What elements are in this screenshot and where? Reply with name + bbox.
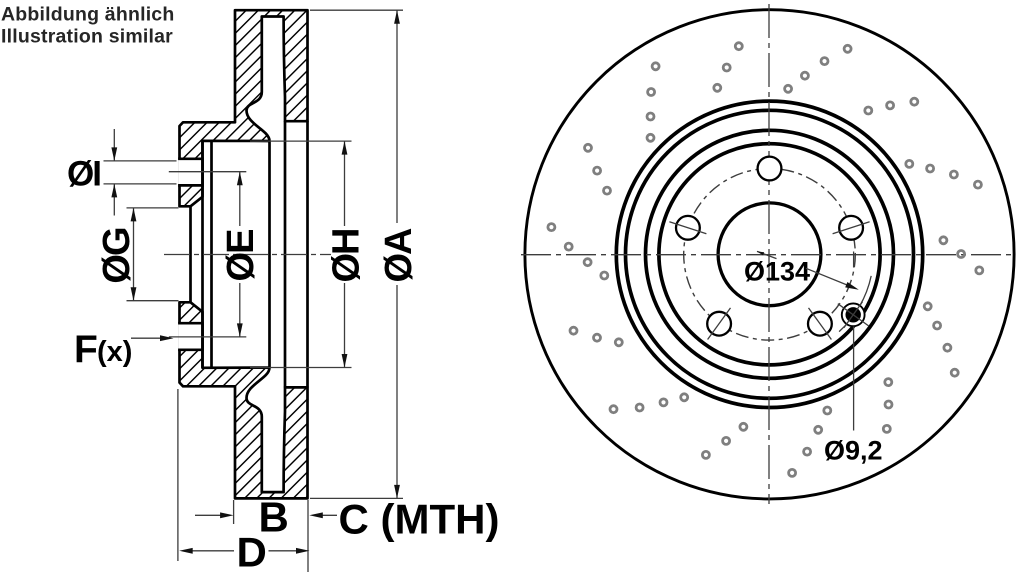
note Abbildung ähnlich / Illustration similar	[1, 4, 174, 48]
wheel bolt hole at 18 deg	[833, 216, 870, 240]
svg-text:F: F	[74, 329, 98, 372]
svg-text:ØI: ØI	[67, 155, 100, 194]
outboard face line x=307.5	[306, 121, 309, 387]
friction ring inner circle r144	[626, 110, 914, 398]
drilled hole row at 149.6 deg	[585, 144, 611, 194]
upper bolt hole in hat flange (section)	[178, 159, 202, 186]
svg-text:C (MTH): C (MTH)	[339, 496, 500, 543]
extension line hat face	[177, 389, 179, 561]
svg-text:Abbildung ähnlich: Abbildung ähnlich	[1, 4, 174, 26]
drilled hole row at 172.9 deg	[548, 224, 608, 279]
dimension ØA line with arrows	[394, 10, 400, 498]
hat inner edge line x=202.5	[201, 141, 204, 368]
svg-text:Ø9,2: Ø9,2	[824, 436, 883, 466]
leader Ø134 to bolt circle	[806, 268, 859, 290]
drilled hole row at 275.9 deg	[789, 407, 831, 476]
svg-text:ØA: ØA	[378, 228, 420, 283]
wheel bolt hole at 306 deg	[808, 308, 832, 340]
drilled hole row at 201.3 deg	[570, 327, 622, 346]
centre bore wall line	[189, 206, 192, 302]
hat step circle r124	[646, 130, 894, 378]
dimension B arrows	[195, 512, 337, 518]
drilled hole row at 252.4 deg	[702, 423, 747, 458]
dimension ØI extension lines	[104, 161, 177, 184]
drilled hole row at 327.4 deg	[924, 303, 958, 376]
drilled hole row at 224.8 deg	[610, 394, 688, 413]
dimension ØA extension lines	[310, 10, 403, 498]
dimension ØH line with arrows	[342, 141, 348, 367]
svg-text:ØH: ØH	[326, 230, 368, 283]
dimension D line with arrows	[179, 548, 309, 554]
outboard ring inner face line x=285	[284, 121, 287, 387]
brake disc section, upper half (hatched)	[180, 10, 308, 206]
drilled hole row at 46.5 deg	[865, 98, 918, 114]
svg-text:Ø134: Ø134	[744, 257, 810, 287]
lower bolt hole in hat flange (section)	[178, 323, 202, 350]
drilled hole row at 303.9 deg	[883, 379, 892, 433]
hat inner wall line x=211.5	[210, 141, 213, 368]
wheel bolt hole at 162 deg	[669, 216, 706, 240]
label F(x)	[74, 329, 132, 372]
neck face line x=269.5	[268, 141, 271, 368]
brake disc section, lower half (hatched)	[180, 302, 308, 498]
dimension ØI arrows	[111, 129, 117, 216]
vertical centreline	[768, 4, 770, 504]
circle through pin hole r104 (arc)	[839, 276, 871, 332]
section centreline	[164, 254, 331, 256]
svg-text:ØG: ØG	[96, 228, 138, 284]
disc outer circle	[525, 10, 1014, 499]
leader Ø9,2	[853, 252, 855, 431]
bolt circle (dash-dot)	[684, 169, 856, 341]
wheel bolt hole at 90 deg	[758, 157, 782, 181]
drilled hole row at 355.6 deg	[940, 237, 983, 274]
drilled hole row at 69.2 deg	[785, 45, 852, 92]
leader tick at disc centre	[757, 251, 777, 258]
dimension ØG extension lines	[127, 208, 179, 301]
friction ring step circle r153	[616, 101, 922, 407]
extension line left ring face	[233, 500, 235, 524]
horizontal centreline	[521, 254, 1016, 256]
drilled hole row at 18.5 deg	[906, 160, 982, 188]
centre bore circle	[718, 203, 821, 306]
extension line outboard face	[307, 500, 309, 572]
drilled hole row at 98.4 deg	[714, 43, 743, 92]
dimension ØG line with arrows	[131, 208, 137, 301]
svg-text:ØE: ØE	[220, 230, 262, 282]
retaining pin hole Ø9,2 (filled)	[838, 302, 869, 328]
dimension ØE line with arrows	[237, 172, 243, 337]
wheel bolt hole at 234 deg	[707, 308, 731, 340]
svg-text:Illustration similar: Illustration similar	[1, 26, 173, 48]
svg-text:(x): (x)	[97, 336, 132, 368]
hat outer circle r110	[659, 144, 880, 365]
dimension ØE extension lines	[169, 172, 247, 337]
drilled hole row at 121.2 deg	[647, 63, 659, 142]
svg-text:D: D	[237, 529, 267, 572]
dimension ØH extension lines	[250, 141, 352, 367]
leader arrow F(x) to lower bolt hole	[131, 335, 174, 341]
